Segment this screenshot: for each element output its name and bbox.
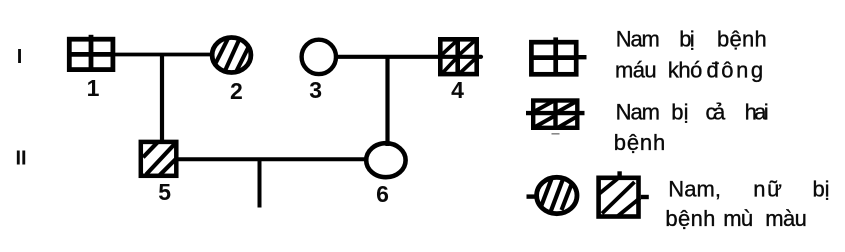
legend text row 1 line 1: Nam bi benh (616, 27, 767, 52)
label 5 (158, 179, 171, 205)
svg-text:bị: bị (679, 27, 694, 52)
svg-text:4: 4 (451, 77, 464, 103)
generation label I (17, 46, 23, 68)
svg-text:đông: đông (707, 58, 764, 83)
svg-text:1: 1 (87, 75, 100, 101)
svg-text:2: 2 (230, 78, 243, 104)
svg-text:cả: cả (706, 100, 727, 125)
svg-text:Nam: Nam (616, 27, 660, 52)
svg-text:II: II (15, 148, 26, 170)
svg-text:hai: hai (745, 100, 769, 125)
sibling drop wire from couple 1-2 down to II-5 (160, 55, 164, 142)
label 3 (309, 77, 322, 103)
legend symbol 3b: hatched square with top tick and right nub (599, 171, 649, 216)
legend text row 1 line 2: mau kho dong (615, 58, 763, 83)
couple wire II-5 to II-6 (177, 157, 368, 161)
svg-text:bệnh: bệnh (665, 206, 715, 231)
svg-text:bị: bị (671, 100, 688, 125)
label 2 (230, 78, 243, 104)
svg-text:màu: màu (765, 206, 807, 231)
svg-text:khó: khó (668, 58, 703, 83)
individual I-4: square with cross and quadrant hatch (Nam bi ca hai benh) (440, 39, 476, 74)
legend text row 3 line 2: benh mu mau (665, 206, 807, 231)
svg-text:Nam: Nam (616, 100, 660, 125)
svg-text:bệnh: bệnh (717, 27, 767, 52)
svg-text:6: 6 (376, 181, 389, 207)
label 4 (451, 77, 464, 103)
svg-text:Nam,: Nam, (668, 176, 721, 201)
legend symbol 3a: hatched ellipse with left stub (527, 175, 578, 214)
individual II-5: hatched square (Nam bi benh mu mau) (141, 142, 177, 176)
individual I-1: square, four-quadrant cross (Nam bi benh mau kho dong) (69, 35, 113, 70)
label 1 (87, 75, 100, 101)
legend text row 3 line 1: Nam, nu bi (668, 176, 829, 201)
svg-text:bệnh: bệnh (614, 130, 666, 155)
generation label II (15, 148, 26, 170)
legend symbol 2: crosshatched square with through line (both diseases) (526, 101, 585, 128)
svg-text:I: I (17, 46, 23, 68)
couple wire I-1 to I-2 (113, 53, 212, 57)
child drop wire from couple 3-4 down to II-6 (385, 57, 389, 146)
svg-text:máu: máu (615, 58, 657, 83)
faint tick below legend square 2 (552, 133, 560, 135)
child drop wire below couple 5-6 (258, 159, 262, 207)
svg-text:nữ: nữ (753, 176, 782, 201)
couple wire I-3 to I-4 (passes through square 4 with right nub) (336, 55, 481, 59)
svg-text:mù: mù (723, 206, 753, 231)
svg-text:bị: bị (813, 176, 830, 201)
individual I-3: empty circle (302, 40, 336, 74)
svg-text:5: 5 (158, 179, 171, 205)
individual II-6: empty ellipse (366, 143, 405, 177)
legend symbol 1: four-quadrant square with top tick and right nub (531, 37, 586, 74)
individual I-2: hatched circle (nu bi benh mu mau) (212, 38, 251, 75)
legend text row 2 line 2: benh (614, 130, 666, 155)
label 6 (376, 181, 389, 207)
svg-text:3: 3 (309, 77, 322, 103)
legend text row 2 line 1: Nam bi ca hai (616, 100, 769, 125)
